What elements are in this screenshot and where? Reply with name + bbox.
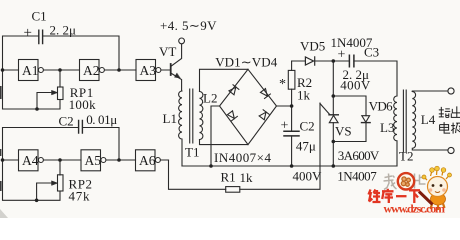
svg-text:T2: T2 bbox=[399, 149, 413, 164]
svg-text:www.dzsc.com: www.dzsc.com bbox=[384, 202, 446, 216]
svg-text:A1: A1 bbox=[22, 63, 39, 78]
svg-text:1k: 1k bbox=[297, 88, 311, 103]
svg-text:47μ: 47μ bbox=[296, 139, 316, 154]
svg-text:2. 2μ: 2. 2μ bbox=[50, 23, 77, 38]
svg-text:+: + bbox=[24, 25, 32, 41]
svg-text:VD1∼VD4: VD1∼VD4 bbox=[215, 54, 278, 69]
svg-text:A6: A6 bbox=[139, 153, 156, 168]
svg-text:VT: VT bbox=[159, 44, 176, 59]
svg-text:L3: L3 bbox=[380, 120, 394, 135]
svg-text:400V: 400V bbox=[293, 169, 323, 184]
svg-text:L2: L2 bbox=[203, 91, 217, 106]
svg-text:400V: 400V bbox=[340, 78, 371, 93]
svg-text:A3: A3 bbox=[140, 63, 157, 78]
svg-text:3A600V: 3A600V bbox=[338, 148, 380, 163]
svg-text:A4: A4 bbox=[22, 153, 39, 168]
svg-text:+: + bbox=[281, 119, 289, 134]
svg-text:1N4007: 1N4007 bbox=[337, 169, 377, 184]
svg-text:C3: C3 bbox=[364, 45, 379, 60]
svg-text:47k: 47k bbox=[69, 188, 91, 203]
svg-text:VD6: VD6 bbox=[369, 99, 394, 114]
svg-text:0. 01μ: 0. 01μ bbox=[86, 112, 117, 127]
svg-text:R1: R1 bbox=[221, 170, 236, 185]
svg-text:L4: L4 bbox=[421, 112, 436, 127]
svg-text:C1: C1 bbox=[32, 9, 47, 24]
svg-text:VD5: VD5 bbox=[300, 39, 325, 54]
svg-text:C2: C2 bbox=[59, 113, 74, 128]
svg-text:*: * bbox=[279, 77, 286, 92]
svg-text:A5: A5 bbox=[85, 153, 102, 168]
svg-text:+: + bbox=[338, 48, 346, 63]
svg-text:T1: T1 bbox=[185, 145, 199, 160]
svg-text:1k: 1k bbox=[240, 170, 254, 185]
svg-text:+4. 5∼9V: +4. 5∼9V bbox=[160, 18, 217, 33]
svg-text:100k: 100k bbox=[69, 97, 97, 112]
svg-text:A2: A2 bbox=[83, 63, 100, 78]
svg-text:VS: VS bbox=[335, 124, 352, 139]
svg-text:C2: C2 bbox=[300, 119, 315, 134]
svg-text:IN4007×4: IN4007×4 bbox=[214, 150, 272, 165]
svg-text:L1: L1 bbox=[163, 111, 177, 126]
